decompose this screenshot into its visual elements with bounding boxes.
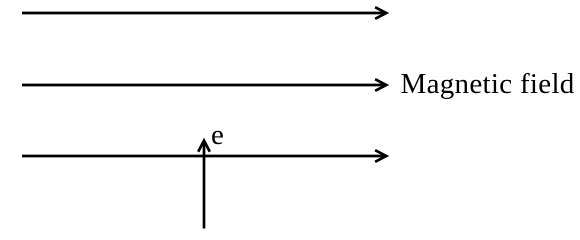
svg-text:e: e — [211, 119, 224, 151]
svg-text:Magnetic field: Magnetic field — [401, 68, 575, 100]
field line arrow 3 (bottom magnetic field line) — [22, 150, 386, 162]
electron velocity arrow (vertical, crossing bottom line) — [198, 141, 210, 229]
field line arrow 2 (middle magnetic field line) — [22, 79, 386, 91]
field line arrow 1 (top magnetic field line) — [22, 7, 386, 19]
